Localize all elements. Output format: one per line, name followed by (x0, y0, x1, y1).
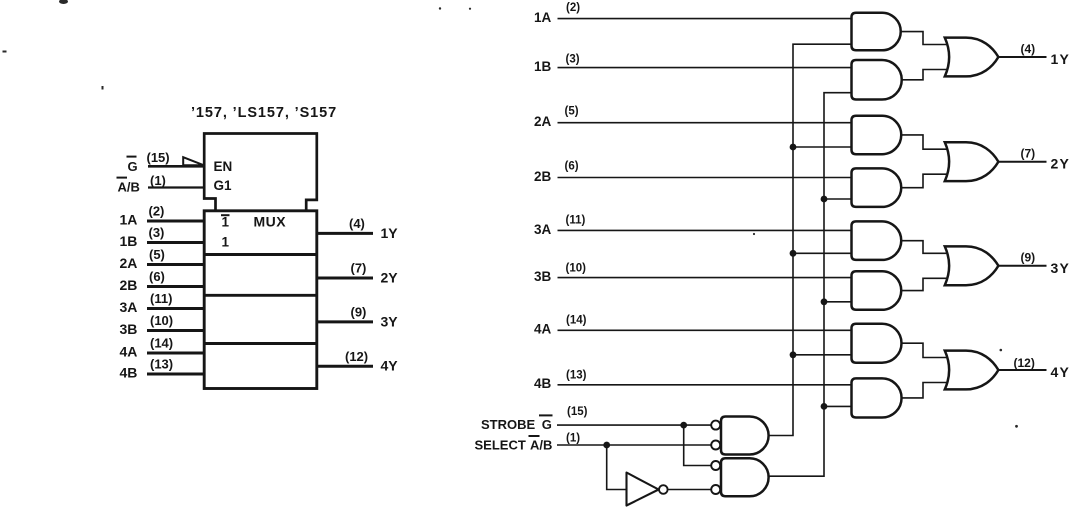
OR gate U11 (3Y) (945, 246, 999, 285)
svg-text:(7): (7) (1021, 147, 1036, 161)
wire 4B input (147, 373, 205, 376)
svg-text:(11): (11) (566, 214, 586, 226)
wire select-A enable rail (node SA) (768, 44, 851, 435)
svg-text:(9): (9) (351, 305, 367, 320)
svg-text:(4): (4) (1021, 42, 1036, 56)
svg-text:A/B: A/B (118, 180, 140, 195)
AND gate U2 (1B) (852, 60, 902, 100)
wire select-B enable rail (node SB) (768, 93, 851, 477)
svg-text:(4): (4) (349, 216, 365, 231)
svg-text:1B: 1B (534, 59, 552, 74)
wire input 3B (right diagram) (558, 277, 852, 279)
svg-text:1Y: 1Y (1051, 51, 1071, 67)
wire STROBE branch to lower enable gate (684, 425, 711, 465)
svg-text:G: G (128, 159, 138, 174)
wire AND4B output to OR4 (899, 383, 952, 398)
AND gate U3 (2A) (852, 116, 902, 155)
svg-text:3Y: 3Y (1051, 260, 1071, 276)
common control block U1a outline (204, 134, 317, 212)
svg-text:EN: EN (214, 159, 233, 174)
wire 2Y output (317, 277, 373, 280)
wire 3Y output (317, 320, 373, 323)
wire 3A input (147, 307, 205, 310)
wire enable branch to 4A gate (793, 354, 852, 356)
svg-text:(14): (14) (566, 314, 587, 326)
junction dot on SB rail / 2B gate (821, 196, 828, 203)
svg-text:SELECT: SELECT (475, 437, 526, 452)
wire 2B input (147, 285, 205, 288)
svg-text:1A: 1A (120, 212, 138, 228)
svg-text:(1): (1) (566, 433, 580, 445)
wire AND4A output to OR4 (899, 343, 952, 357)
wire inverter output (663, 489, 711, 491)
svg-text:(1): (1) (150, 173, 166, 188)
svg-text:(10): (10) (150, 313, 173, 328)
AND gate U8 (4B) (852, 378, 902, 417)
svg-text:(6): (6) (565, 161, 579, 173)
wire AND2B output to OR2 (899, 174, 952, 187)
wire SELECT branch to inverter (607, 445, 627, 490)
svg-text:(9): (9) (1021, 251, 1036, 265)
inverter U15 output bubble (659, 485, 668, 494)
svg-text:’157, ’LS157, ’S157: ’157, ’LS157, ’S157 (191, 105, 337, 121)
svg-text:4Y: 4Y (1051, 364, 1071, 380)
wire input 1B (right diagram) (558, 67, 852, 69)
AND gate U5 (3A) (852, 221, 902, 260)
wire input 1A (right diagram) (558, 18, 852, 20)
junction dot on SA rail / 2A gate (790, 144, 797, 151)
junction dot on SA rail / 3A gate (790, 250, 797, 257)
wire AND3A output to OR3 (899, 241, 952, 254)
wire 3B input (147, 329, 205, 332)
wire 1Y output (998, 56, 1047, 58)
OR gate U12 (4Y) (945, 351, 999, 390)
svg-text:(2): (2) (149, 204, 165, 219)
AND gate U13 (select-A enable) (721, 417, 769, 455)
wire G-bar input (148, 165, 204, 168)
wire enable branch to 2A gate (793, 146, 852, 148)
scan speck marks (3, 0, 1018, 428)
AND gate U7 (4A) (852, 324, 902, 363)
wire 1Y output (317, 232, 373, 235)
wire AND3B output to OR3 (899, 278, 952, 290)
OR gate U9 (1Y) (945, 38, 999, 77)
inverting bubble U13 pin 2 (SELECT) (711, 441, 720, 450)
svg-text:1Y: 1Y (381, 225, 399, 241)
svg-text:A/B: A/B (530, 437, 552, 452)
wire SELECT input (557, 444, 711, 446)
svg-text:(12): (12) (345, 349, 368, 364)
MUX block U1b body (204, 211, 317, 389)
svg-text:STROBE: STROBE (481, 417, 536, 432)
svg-text:(13): (13) (150, 357, 173, 372)
svg-text:MUX: MUX (254, 214, 287, 230)
wire AND1B output to OR1 (899, 70, 952, 80)
svg-text:1: 1 (222, 235, 230, 250)
AND gate U14 (select-B enable) (721, 458, 769, 496)
MUX section divider 1 (204, 253, 317, 256)
svg-text:4B: 4B (120, 365, 138, 381)
MUX section divider 2 (204, 294, 317, 297)
wire input 4A (right diagram) (558, 329, 852, 331)
inverting bubble U14 pin 2 (inverted SELECT) (711, 485, 720, 494)
wire enable branch to 3B gate (824, 301, 852, 303)
svg-text:(15): (15) (567, 406, 588, 418)
svg-text:(6): (6) (149, 269, 165, 284)
wire 4Y output (998, 369, 1047, 371)
svg-text:4A: 4A (534, 322, 552, 337)
wire A-bar/B input (148, 186, 204, 188)
junction dot on SB rail / 3B gate (821, 298, 828, 305)
svg-text:(11): (11) (150, 291, 172, 306)
wire AND1A output to OR1 (899, 32, 952, 45)
svg-text:1: 1 (222, 215, 230, 230)
wire 4A input (147, 352, 205, 355)
svg-text:3A: 3A (534, 222, 552, 237)
svg-text:3A: 3A (120, 299, 138, 315)
svg-text:(13): (13) (566, 369, 587, 381)
polarity wedge on EN input (183, 157, 203, 165)
wire 2Y output (998, 161, 1047, 163)
svg-text:2A: 2A (534, 114, 552, 129)
svg-text:1A: 1A (534, 10, 552, 25)
AND gate U4 (2B) (852, 168, 902, 207)
svg-text:3Y: 3Y (381, 313, 399, 329)
AND gate U1 (1A) (852, 13, 901, 51)
svg-text:(5): (5) (149, 247, 165, 262)
wire input 2A (right diagram) (558, 122, 852, 124)
inverter U15 triangle (627, 473, 659, 506)
svg-text:3B: 3B (120, 321, 138, 337)
wire 3Y output (998, 265, 1047, 267)
svg-text:3B: 3B (534, 269, 552, 284)
junction dot on STROBE line (680, 422, 687, 429)
wire 1B input (147, 241, 205, 244)
svg-text:4A: 4A (120, 344, 138, 360)
inverting bubble U13 pin 1 (STROBE) (711, 421, 720, 430)
svg-text:(2): (2) (566, 2, 580, 14)
svg-text:1B: 1B (120, 233, 138, 249)
svg-text:(10): (10) (566, 263, 587, 275)
svg-text:(5): (5) (565, 106, 579, 118)
junction dot on SELECT line (603, 442, 610, 449)
wire AND2A output to OR2 (899, 135, 952, 149)
svg-text:(3): (3) (566, 54, 580, 66)
svg-text:(12): (12) (1014, 356, 1035, 370)
wire enable branch to 4B gate (824, 405, 852, 407)
svg-text:G: G (542, 417, 552, 432)
MUX section divider 3 (204, 342, 317, 345)
svg-text:(3): (3) (149, 225, 165, 240)
wire STROBE input (557, 424, 711, 426)
svg-text:G1: G1 (214, 178, 233, 193)
svg-text:2B: 2B (120, 277, 138, 293)
wire 1A input (147, 220, 205, 223)
wire input 4B (right diagram) (558, 384, 852, 386)
OR gate U10 (2Y) (945, 142, 999, 181)
svg-text:2A: 2A (120, 255, 138, 271)
svg-text:2Y: 2Y (381, 269, 399, 285)
junction dot on SA rail / 4A gate (790, 351, 797, 358)
svg-text:(7): (7) (351, 261, 367, 276)
wire enable branch to 3A gate (793, 252, 852, 254)
svg-text:(15): (15) (147, 150, 170, 165)
svg-text:4Y: 4Y (381, 358, 399, 374)
junction dot on SB rail / 4B gate (821, 403, 828, 410)
wire input 3A (right diagram) (558, 229, 852, 231)
AND gate U6 (3B) (852, 271, 902, 310)
svg-text:4B: 4B (534, 376, 552, 391)
svg-text:(14): (14) (150, 336, 173, 351)
svg-text:2B: 2B (534, 169, 552, 184)
wire 4Y output (317, 365, 373, 368)
svg-text:2Y: 2Y (1051, 156, 1071, 172)
wire input 2B (right diagram) (558, 177, 852, 179)
wire 2A input (147, 263, 205, 266)
inverting bubble U14 pin 1 (STROBE) (711, 461, 720, 470)
wire enable branch to 2B gate (824, 198, 852, 200)
